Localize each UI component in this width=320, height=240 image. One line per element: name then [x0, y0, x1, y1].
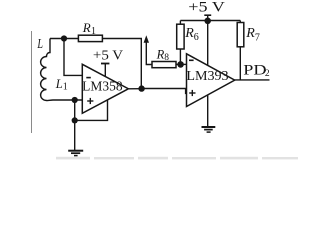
svg-text:2: 2: [265, 69, 270, 79]
node E junction: [177, 61, 184, 68]
wire R8 to node E and U2 inverting input: [176, 63, 187, 65]
wire node B down to node C: [74, 100, 76, 120]
node C junction: [72, 117, 78, 123]
ground left: [68, 151, 83, 156]
ground center: [202, 127, 216, 132]
svg-text:L: L: [37, 37, 43, 52]
svg-text:+5 V: +5 V: [93, 48, 123, 63]
node D output junction: [138, 85, 144, 91]
U1 non-inverting input marker: [87, 98, 93, 104]
node B junction at non-inverting input: [72, 97, 78, 103]
U1 inverting input marker: [86, 77, 91, 79]
svg-text:R6: R6: [184, 26, 199, 43]
svg-text:LM358: LM358: [82, 78, 123, 93]
svg-text:R8: R8: [156, 47, 170, 63]
inductor L1: [41, 39, 53, 101]
wire node A to U1 inverting input: [64, 39, 82, 76]
node F rail junction: [204, 18, 211, 25]
svg-text:R1: R1: [82, 20, 96, 37]
wire L1 top to R1: [50, 38, 78, 40]
power +5 V right: [188, 0, 225, 21]
svg-text:L1: L1: [55, 77, 68, 93]
wire L1 bottom to U1 non-inverting input: [53, 99, 82, 101]
node A junction at R1 left: [61, 35, 67, 41]
resistor R1: [78, 35, 102, 41]
power +5 V for U1: [93, 48, 123, 77]
+5V rail: [180, 20, 240, 22]
wire output to U2 non-inverting input: [142, 89, 187, 94]
svg-text:+5 V: +5 V: [188, 0, 225, 16]
wire node C to ground: [74, 120, 76, 150]
arrow tap to R8: [144, 35, 152, 64]
resistor R6: [177, 21, 184, 65]
op-amp U1 LM358: [82, 64, 128, 113]
wire U2 output: [235, 79, 270, 81]
wire U1 ground pin to node C: [75, 100, 108, 121]
svg-text:LM393: LM393: [186, 68, 229, 83]
resistor R8: [152, 62, 176, 68]
comparator U2 LM393: [187, 54, 235, 107]
U2 non-inverting input marker: [189, 90, 195, 96]
svg-text:PD: PD: [243, 63, 266, 79]
wire rail to U2 power pin: [207, 21, 209, 66]
wire U2 ground pin: [207, 95, 209, 127]
wire R1 right feedback to output node: [102, 39, 141, 89]
U2 inverting input marker: [189, 59, 194, 61]
wire U1 output: [128, 88, 141, 90]
resistor R7: [237, 21, 244, 80]
svg-text:R7: R7: [245, 26, 260, 43]
